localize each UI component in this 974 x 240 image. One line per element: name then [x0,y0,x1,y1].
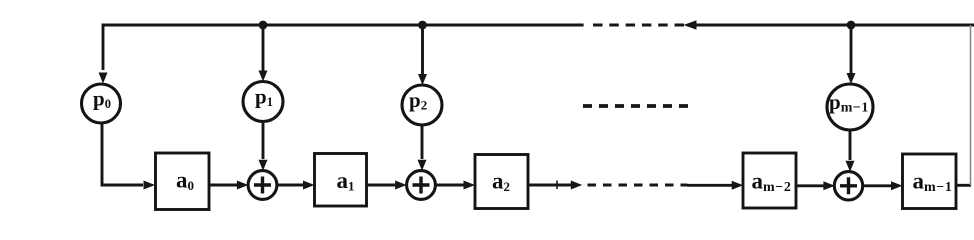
multiplier tap pm-1 [827,84,873,130]
wire adder2 to a2 [435,181,475,190]
wire a2 output with mid arrow [528,181,582,190]
svg-text:am−2: am−2 [752,169,792,196]
node junction dot above pm-1 [847,21,856,30]
arrowhead on top feedback line pointing left [684,20,697,30]
multiplier tap p0 [82,84,121,123]
register a2 [475,155,528,209]
svg-text:a2: a2 [492,169,510,195]
wire pm-1 into adder3 [846,130,855,172]
wire drop from junction to pm-1 [847,25,856,84]
wire p1 into adder1 [259,122,268,171]
register a1 [315,154,367,207]
wire a1 to adder2 [367,181,407,190]
svg-text:a0: a0 [176,168,194,194]
wire adder1 to a1 [277,181,315,190]
ellipsis dashed line bottom row [588,184,688,187]
wire p0 output elbow into a0 [102,122,155,190]
wire into am-2 [688,181,744,190]
svg-text:pm−1: pm−1 [829,90,869,116]
adder U2 (modulo-2 adder) [407,171,436,200]
wire drop from junction to p2 [418,25,427,85]
svg-text:p0: p0 [93,87,111,112]
svg-text:p2: p2 [409,88,427,113]
wire a0 to adder1 [209,181,248,190]
register am-2 [743,153,796,208]
wire top feedback dashed middle segment [593,23,684,26]
svg-text:a1: a1 [337,168,355,194]
register a0 [156,153,210,210]
wire am-1 output to feedback riser [956,184,971,187]
arrowhead into p0 top [99,73,108,84]
ellipsis dashed line middle row [583,104,689,108]
wire drop from junction to p1 [259,25,268,82]
wire adder3 to am-1 [863,181,903,190]
node junction dot above p2 [418,21,427,30]
wire top feedback line left run with left elbow down to p0 [103,25,584,70]
multiplier tap p2 [402,85,442,125]
adder U3 (modulo-2 adder) [834,172,862,200]
wire p2 into adder2 [418,125,427,171]
svg-text:p1: p1 [255,85,273,110]
wire top feedback line right run [695,24,974,27]
node junction dot above p1 [259,21,268,30]
svg-text:am−1: am−1 [913,169,953,196]
wire feedback riser right edge [970,25,972,185]
register am-1 [903,154,957,209]
wire am-2 to adder3 [796,181,835,190]
multiplier tap p1 [243,82,283,122]
adder U1 (modulo-2 adder) [248,171,277,200]
